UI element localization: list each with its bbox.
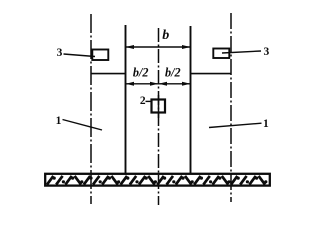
svg-text:3: 3 bbox=[264, 46, 270, 58]
svg-text:2: 2 bbox=[140, 95, 146, 107]
svg-text:b/2: b/2 bbox=[133, 65, 149, 79]
svg-text:b/2: b/2 bbox=[165, 65, 181, 79]
svg-text:3: 3 bbox=[57, 47, 63, 59]
svg-text:1: 1 bbox=[56, 115, 62, 127]
svg-text:b: b bbox=[162, 28, 169, 43]
svg-text:1: 1 bbox=[263, 118, 269, 130]
